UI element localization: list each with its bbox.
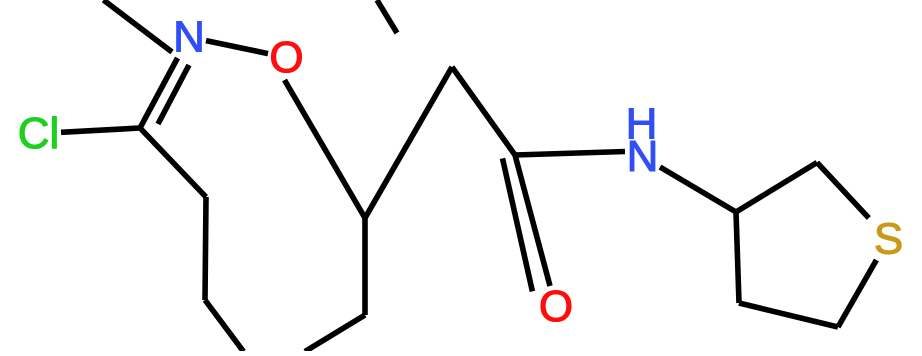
svg-text:Cl: Cl xyxy=(18,109,60,158)
svg-text:O: O xyxy=(269,33,303,82)
svg-text:N: N xyxy=(173,13,205,62)
svg-text:O: O xyxy=(539,282,573,331)
svg-text:S: S xyxy=(874,215,903,264)
svg-text:N: N xyxy=(627,132,659,181)
